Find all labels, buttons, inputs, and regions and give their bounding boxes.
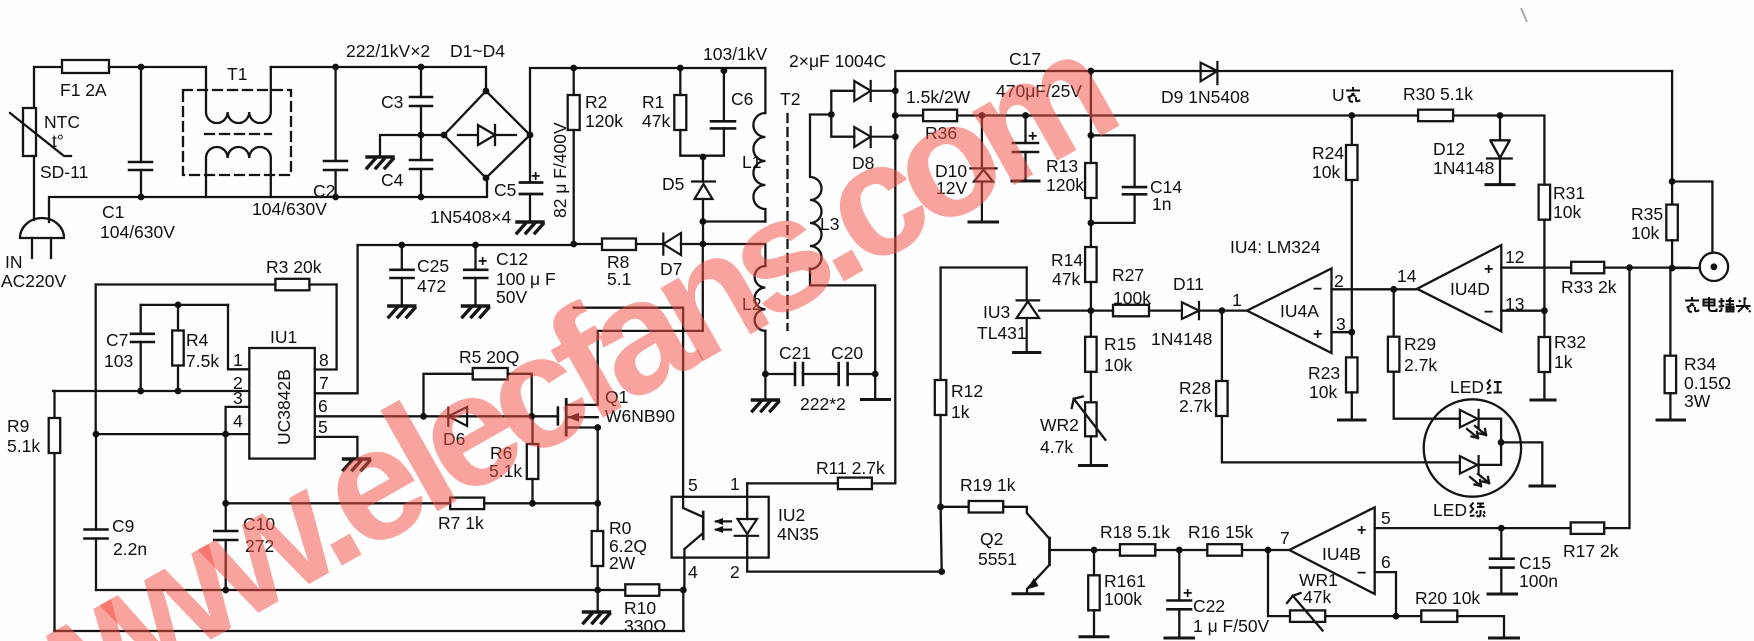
svg-text:WR2: WR2 bbox=[1040, 415, 1079, 435]
wire C20 node down to bar bbox=[874, 374, 876, 399]
svg-text:1k: 1k bbox=[951, 402, 970, 422]
wire Vcc node to R8 bbox=[574, 243, 602, 245]
capacitor C12 plates bbox=[464, 270, 487, 278]
svg-text:t°: t° bbox=[52, 131, 64, 151]
R32 end bar bbox=[1531, 399, 1555, 402]
wire R30 right rail bbox=[1453, 116, 1544, 185]
WR1 arrow bbox=[1287, 593, 1323, 631]
wire R7 right bbox=[484, 502, 598, 504]
capacitor C9 plates bbox=[85, 530, 108, 539]
svg-text:104/630V: 104/630V bbox=[252, 199, 327, 219]
svg-text:R27: R27 bbox=[1112, 265, 1144, 285]
wire AC bottom line bbox=[49, 178, 487, 222]
svg-text:R33 2k: R33 2k bbox=[1561, 277, 1617, 297]
resistor R27 body bbox=[1113, 305, 1149, 317]
wire D8 top branch bbox=[831, 91, 854, 115]
bridge rectifier D1-D4 diamond bbox=[444, 91, 530, 178]
capacitor C15 plates bbox=[1490, 559, 1514, 568]
wire D5 to primary bottom node bbox=[702, 199, 704, 222]
wire R12 bottom bbox=[941, 415, 942, 572]
wire R14 bottom to ref node bbox=[1090, 282, 1092, 311]
IU2 led arrows bbox=[716, 521, 731, 529]
wire C12 bbox=[474, 245, 476, 304]
wire NTC to plug bbox=[33, 156, 35, 220]
svg-text:F1 2A: F1 2A bbox=[60, 80, 107, 100]
capacitor C21 plates bbox=[795, 363, 803, 385]
C15 bottom bar bbox=[1488, 593, 1517, 596]
plug center dot bbox=[1711, 263, 1718, 270]
svg-text:R32: R32 bbox=[1554, 332, 1586, 352]
svg-text:R23: R23 bbox=[1308, 363, 1340, 383]
wire L2 node to C21 bbox=[765, 373, 795, 375]
wire node to D7 line bbox=[702, 222, 704, 245]
wire D11 to IU4A pin1 bbox=[1222, 309, 1247, 311]
diode D6 bbox=[448, 407, 467, 426]
wire R3 left down to pin4 line bbox=[95, 285, 97, 435]
svg-text:AC220V: AC220V bbox=[1, 271, 67, 291]
resistor R5 body bbox=[473, 368, 508, 380]
IU2 phototransistor bbox=[702, 512, 705, 539]
capacitor C5 plates bbox=[520, 183, 542, 195]
svg-text:T2: T2 bbox=[780, 89, 800, 109]
wire L3 bottom to C20 node bbox=[810, 269, 875, 375]
resistor R12 body bbox=[935, 380, 947, 415]
resistor R24 body bbox=[1346, 145, 1358, 180]
svg-text:C6: C6 bbox=[731, 89, 753, 109]
svg-text:−: − bbox=[1313, 281, 1322, 298]
svg-text:+: + bbox=[1484, 261, 1493, 278]
LED common out bbox=[1501, 442, 1542, 485]
opamp IU4D triangle bbox=[1417, 245, 1501, 331]
svg-text:R24: R24 bbox=[1312, 143, 1344, 163]
resistor R30 body bbox=[1418, 110, 1453, 122]
wire C15 bbox=[1500, 528, 1502, 593]
svg-text:C5: C5 bbox=[494, 180, 516, 200]
resistor R8 body bbox=[602, 239, 636, 251]
LED indicator circle bbox=[1424, 399, 1521, 496]
svg-text:IU4A: IU4A bbox=[1280, 301, 1319, 321]
wire R24 column bbox=[1351, 116, 1353, 146]
wire R19 to Q2 collector bbox=[1003, 507, 1049, 539]
Vcc cap rail bbox=[358, 244, 574, 246]
IU1 pin 5 stub to ground bbox=[315, 437, 358, 457]
svg-text:−: − bbox=[1357, 565, 1366, 582]
kanji tou bbox=[1736, 298, 1751, 313]
junction dots bbox=[138, 64, 145, 71]
wire R29 column bbox=[1393, 289, 1395, 336]
svg-text:SD-11: SD-11 bbox=[40, 162, 88, 182]
wire R19 line bbox=[942, 506, 969, 508]
plug circle bbox=[1700, 253, 1728, 281]
capacitor C4 plates bbox=[410, 160, 432, 169]
resistor R29 body bbox=[1388, 337, 1400, 372]
optocoupler IU2 box bbox=[672, 497, 769, 558]
R23 bottom bar bbox=[1339, 419, 1366, 422]
svg-text:C20: C20 bbox=[831, 343, 863, 363]
wire C1 top bbox=[140, 67, 142, 162]
MOSFET Q1 gate bar bbox=[557, 408, 560, 425]
svg-text:+: + bbox=[1357, 522, 1366, 539]
C20 node bottom bar bbox=[862, 398, 890, 401]
diode D12 bbox=[1487, 116, 1512, 185]
transformer T1 dashed box bbox=[183, 90, 291, 175]
svg-text:3W: 3W bbox=[1684, 391, 1711, 411]
svg-text:D11: D11 bbox=[1173, 274, 1204, 294]
svg-text:14: 14 bbox=[1397, 266, 1417, 286]
resistor R9 body bbox=[49, 418, 61, 453]
wire C7 bbox=[140, 305, 142, 391]
svg-text:+: + bbox=[1313, 326, 1322, 343]
capacitor C25 plates bbox=[391, 270, 414, 278]
svg-text:R18 5.1k: R18 5.1k bbox=[1100, 522, 1170, 542]
svg-text:10k: 10k bbox=[1553, 202, 1581, 222]
ground under C12 bbox=[463, 306, 489, 317]
svg-text:R4: R4 bbox=[186, 330, 209, 350]
svg-text:R0: R0 bbox=[609, 518, 632, 538]
wire T1 to C2 bbox=[271, 67, 486, 91]
wire C22 bbox=[1178, 550, 1180, 637]
svg-text:−: − bbox=[1484, 304, 1493, 321]
wire snubber node to D5 bbox=[702, 156, 704, 182]
wire AC top line from plug to fuse bbox=[34, 67, 62, 107]
svg-text:D1~D4: D1~D4 bbox=[450, 41, 505, 61]
wire R1 bottom bbox=[680, 130, 703, 156]
svg-text:IU4: LM324: IU4: LM324 bbox=[1230, 237, 1321, 257]
T1 bottom winding bbox=[206, 147, 271, 197]
wire D7 node to L2 top bbox=[703, 244, 765, 266]
svg-text:10k: 10k bbox=[1312, 162, 1340, 182]
resistor R32 body bbox=[1539, 337, 1551, 372]
LED red diode bbox=[1460, 410, 1479, 428]
bridge inner diode bbox=[458, 125, 516, 145]
wire R2 top bbox=[573, 68, 575, 95]
svg-text:NTC: NTC bbox=[44, 112, 80, 132]
wire pin4 column to bottom rail bbox=[682, 590, 684, 631]
resistor R11 body bbox=[838, 478, 872, 490]
svg-text:7.5k: 7.5k bbox=[186, 351, 219, 371]
wire C1 bottom bbox=[140, 170, 142, 197]
wire WR2 bottom bbox=[1090, 436, 1092, 465]
svg-text:R28: R28 bbox=[1179, 378, 1211, 398]
R161 bottom bar bbox=[1080, 635, 1108, 638]
svg-text:2: 2 bbox=[730, 562, 740, 582]
TL431 ref wire bbox=[1039, 309, 1091, 311]
Q2 emitter bar bbox=[1013, 592, 1043, 595]
resistor R15 body bbox=[1085, 337, 1097, 372]
svg-text:R15: R15 bbox=[1104, 334, 1136, 354]
resistor R4 body bbox=[172, 331, 184, 366]
opamp IU4A triangle bbox=[1247, 269, 1332, 354]
svg-text:1k: 1k bbox=[1554, 352, 1573, 372]
svg-text:LED: LED bbox=[1433, 500, 1467, 520]
capacitor C7 plates bbox=[131, 334, 154, 342]
wire U-charge rail bbox=[957, 114, 1418, 116]
IU1 pin 2 rail bbox=[53, 390, 249, 392]
svg-text:R30 5.1k: R30 5.1k bbox=[1403, 84, 1473, 104]
transistor Q2 bar bbox=[1048, 538, 1051, 565]
ground at IU1 pin5 bbox=[344, 459, 370, 470]
kanji hong bbox=[1487, 380, 1502, 394]
svg-text:100k: 100k bbox=[1104, 589, 1142, 609]
resistor R28 body bbox=[1216, 381, 1228, 416]
svg-text:1N5408×4: 1N5408×4 bbox=[430, 207, 512, 227]
svg-text:R34: R34 bbox=[1684, 354, 1716, 374]
svg-text:4N35: 4N35 bbox=[777, 524, 819, 544]
wire L3 top to D8 split node bbox=[810, 113, 831, 115]
svg-text:R17 2k: R17 2k bbox=[1563, 541, 1619, 561]
pot WR2 body bbox=[1085, 402, 1097, 436]
svg-text:IU4B: IU4B bbox=[1322, 544, 1361, 564]
svg-text:R161: R161 bbox=[1104, 571, 1146, 591]
IU4A pin3 wire bbox=[1332, 331, 1352, 333]
kanji chong at U-charge bbox=[1346, 87, 1360, 102]
Q1 body stub with arrow bbox=[566, 416, 598, 418]
svg-text:C15: C15 bbox=[1519, 553, 1551, 573]
IU1 pin 4 line bbox=[96, 433, 249, 435]
wire R24 bottom to pin3 bbox=[1351, 180, 1353, 332]
IU2 LED diode bbox=[735, 519, 758, 536]
wire sense line R7 bbox=[226, 502, 451, 504]
svg-text:R1: R1 bbox=[642, 92, 664, 112]
wire R27 to D11 bbox=[1149, 309, 1182, 311]
plug IN AC220V dome bbox=[20, 218, 64, 238]
capacitor C22 plates bbox=[1168, 601, 1192, 610]
Q1 arrow bbox=[568, 413, 580, 422]
svg-text:1: 1 bbox=[1232, 290, 1242, 310]
svg-text:472: 472 bbox=[417, 276, 446, 296]
ground under R0 R10 node bbox=[584, 612, 610, 623]
svg-text:1n: 1n bbox=[1152, 194, 1171, 214]
diode D7 bbox=[636, 233, 681, 255]
T1 top winding bbox=[206, 67, 271, 123]
svg-text:R2: R2 bbox=[585, 92, 607, 112]
svg-text:C1: C1 bbox=[102, 202, 124, 222]
thermistor NTC body bbox=[23, 108, 36, 156]
svg-text:100k: 100k bbox=[1113, 288, 1151, 308]
IU1 pin 7 stub bbox=[315, 245, 358, 393]
LED green to common bbox=[1477, 442, 1501, 465]
diode D11 bbox=[1182, 302, 1222, 319]
resistor R23 body bbox=[1346, 357, 1358, 392]
svg-text:1: 1 bbox=[730, 474, 740, 494]
svg-text:103/1kV: 103/1kV bbox=[703, 44, 768, 64]
resistor R7 body bbox=[450, 498, 484, 510]
svg-text:47k: 47k bbox=[1052, 269, 1080, 289]
svg-text:R9: R9 bbox=[7, 416, 29, 436]
svg-text:C4: C4 bbox=[381, 170, 404, 190]
wire right rail down bbox=[1671, 71, 1673, 205]
resistor R17 body bbox=[1571, 522, 1605, 534]
resistor R19 body bbox=[969, 501, 1004, 513]
wire C10 bbox=[225, 503, 227, 590]
wire R1 top bbox=[679, 68, 681, 95]
IU2 pin2 wire bbox=[747, 536, 942, 572]
resistor R31 body bbox=[1539, 185, 1551, 220]
wire C2 bbox=[334, 67, 336, 197]
wire D7 anode to node bbox=[681, 243, 703, 245]
IU2 pin1 wire bbox=[746, 483, 748, 519]
svg-text:R19 1k: R19 1k bbox=[960, 475, 1016, 495]
svg-text:1 μ F/50V: 1 μ F/50V bbox=[1193, 616, 1270, 636]
resistor R20 body bbox=[1421, 610, 1457, 622]
resistor R6 body bbox=[527, 444, 539, 479]
svg-text:R10: R10 bbox=[624, 598, 656, 618]
wire R27 left bbox=[1091, 309, 1113, 311]
svg-text:10k: 10k bbox=[1309, 382, 1337, 402]
wire C21 to C20 bbox=[803, 373, 839, 375]
ground under C25 bbox=[389, 306, 415, 317]
wire plug top branch bbox=[1672, 182, 1712, 253]
MOSFET Q1 channel bar bbox=[565, 399, 568, 435]
R34 bottom bar bbox=[1657, 419, 1685, 422]
svg-text:C3: C3 bbox=[381, 92, 403, 112]
diode D9 bbox=[1201, 62, 1218, 84]
zener D10 bbox=[970, 116, 996, 223]
small tick mark top right bbox=[1521, 8, 1527, 22]
svg-text:+: + bbox=[478, 253, 487, 270]
svg-text:5.1k: 5.1k bbox=[7, 436, 40, 456]
T1 core dashed line bbox=[205, 133, 271, 135]
capacitor C6 plates bbox=[711, 121, 735, 128]
svg-text:5551: 5551 bbox=[978, 549, 1017, 569]
wire C5 to ground bbox=[529, 194, 531, 220]
charging plug label kanji bbox=[1685, 297, 1751, 312]
wire C9 bbox=[95, 434, 97, 590]
wire D8 node up to DC out rail bbox=[895, 71, 1672, 91]
svg-text:4.7k: 4.7k bbox=[1040, 437, 1073, 457]
resistor R13 body bbox=[1085, 163, 1097, 198]
capacitor C20 plates bbox=[839, 363, 848, 385]
Q2 emitter arrow bbox=[1027, 578, 1039, 590]
wire R6 top bbox=[531, 416, 533, 444]
T2 primary winding L1 bbox=[753, 113, 765, 222]
svg-text:2: 2 bbox=[1334, 271, 1344, 291]
svg-text:12: 12 bbox=[1505, 247, 1524, 267]
ground under L2 C21 node bbox=[752, 400, 778, 411]
svg-text:R35: R35 bbox=[1631, 204, 1663, 224]
ground stub under R0 bbox=[597, 590, 599, 610]
svg-text:R16 15k: R16 15k bbox=[1188, 522, 1253, 542]
wire C3 top bbox=[420, 67, 422, 97]
svg-text:7: 7 bbox=[1280, 528, 1290, 548]
wire C3 bottom to C4 node bbox=[420, 106, 422, 135]
svg-text:U: U bbox=[1332, 85, 1345, 105]
wire R0 bbox=[597, 503, 599, 590]
kanji dian bbox=[1704, 297, 1717, 311]
capacitor C2 plates bbox=[324, 161, 347, 170]
svg-text:R14: R14 bbox=[1051, 250, 1083, 270]
wire pin7 node down to WR1 bbox=[1268, 550, 1290, 616]
wire R31 bottom to pin13 bbox=[1543, 220, 1545, 311]
LED red arrows bbox=[1467, 426, 1486, 438]
svg-text:47k: 47k bbox=[1303, 587, 1331, 607]
resistor R36 body bbox=[923, 110, 957, 122]
Q1 drain stub bbox=[566, 404, 598, 406]
wire bridge right to C5 bbox=[529, 135, 531, 182]
LED common bar bbox=[1530, 485, 1555, 488]
wire ground stub at C3/C4 node bbox=[380, 135, 421, 155]
svg-text:C2: C2 bbox=[313, 181, 335, 201]
IU4D pin13 wire bbox=[1501, 310, 1544, 312]
resistor R2 body bbox=[568, 95, 580, 130]
resistor R14 body bbox=[1085, 247, 1097, 282]
svg-text:5: 5 bbox=[1381, 508, 1391, 528]
LED red to common bbox=[1477, 419, 1501, 443]
svg-text:D12: D12 bbox=[1433, 139, 1465, 159]
wire R13 bottom bbox=[1090, 198, 1092, 247]
svg-text:10k: 10k bbox=[1104, 355, 1132, 375]
C22 bottom bar bbox=[1165, 637, 1194, 640]
IU4B pin5 wire bbox=[1375, 527, 1502, 529]
T2 secondary winding L3 bbox=[810, 115, 822, 269]
IU2 pin4 wire bbox=[683, 558, 685, 590]
wire fuse to T1 left terminal bbox=[109, 66, 206, 68]
svg-text:222/1kV×2: 222/1kV×2 bbox=[346, 41, 430, 61]
plug prongs bbox=[32, 238, 51, 258]
wire R5 bypass loop bbox=[424, 374, 532, 417]
IU2 emitter diag bbox=[684, 533, 703, 558]
resistor R0 body bbox=[592, 531, 604, 566]
wire R13 column top bbox=[1090, 71, 1092, 163]
D12 anode bar bbox=[1486, 183, 1514, 186]
wire TL431 cathode to R12 bbox=[941, 268, 1027, 381]
resistor R161 body bbox=[1088, 575, 1100, 610]
wire R15 bbox=[1090, 311, 1092, 403]
svg-text:0.15Ω: 0.15Ω bbox=[1684, 373, 1731, 393]
wire R17 bbox=[1501, 268, 1629, 528]
svg-text:D5: D5 bbox=[662, 174, 684, 194]
svg-text:C25: C25 bbox=[417, 256, 449, 276]
svg-text:IU4D: IU4D bbox=[1450, 279, 1490, 299]
resistor R34 body bbox=[1665, 356, 1677, 394]
IU1 pin 8 stub bbox=[315, 285, 337, 370]
ground under L2 bbox=[764, 374, 766, 398]
svg-text:5: 5 bbox=[688, 475, 698, 495]
svg-text:120k: 120k bbox=[585, 111, 623, 131]
svg-text:3: 3 bbox=[233, 388, 243, 408]
kanji chong2 bbox=[1685, 297, 1699, 312]
wire R23 bbox=[1351, 332, 1353, 420]
capacitor C17 plates bbox=[1013, 143, 1038, 152]
capacitor C10 plates bbox=[214, 531, 237, 540]
LED green arrows bbox=[1470, 474, 1489, 486]
wire C20 right to node bbox=[848, 373, 876, 375]
svg-text:D9 1N5408: D9 1N5408 bbox=[1161, 87, 1250, 107]
svg-text:4: 4 bbox=[688, 562, 698, 582]
wire D8 node down to R11 bbox=[894, 137, 896, 484]
svg-text:R3 20k: R3 20k bbox=[266, 257, 322, 277]
svg-text:7: 7 bbox=[319, 373, 329, 393]
wire R16 bbox=[1179, 549, 1289, 551]
svg-text:C7: C7 bbox=[106, 330, 128, 350]
T2 aux winding L2 bbox=[755, 266, 766, 331]
svg-text:2×μF 1004C: 2×μF 1004C bbox=[789, 51, 886, 71]
ground under C5 bbox=[517, 222, 543, 233]
svg-text:1N4148: 1N4148 bbox=[1151, 329, 1212, 349]
wire R33 right bbox=[1604, 266, 1689, 268]
resistor R3 body bbox=[275, 279, 309, 291]
kanji lv bbox=[1470, 503, 1485, 518]
wire Vcc node to opto collector bbox=[574, 308, 683, 497]
wire R4 bbox=[177, 305, 179, 391]
svg-text:222*2: 222*2 bbox=[800, 394, 846, 414]
IC IU1 UC3842B box bbox=[249, 348, 314, 459]
wire C14 branch bbox=[1091, 135, 1135, 223]
svg-text:1: 1 bbox=[233, 350, 243, 370]
fuse F1 bbox=[62, 60, 109, 73]
Q2 base wire bbox=[1050, 549, 1095, 551]
wire D8 output vertical bbox=[894, 91, 896, 137]
